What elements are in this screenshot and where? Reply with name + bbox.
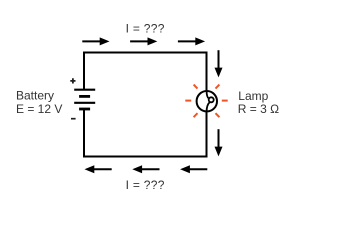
current arrow right lower (down)	[215, 129, 223, 156]
battery plus sign	[70, 78, 75, 83]
wire bottom	[84, 156, 207, 158]
svg-text:Battery: Battery	[16, 89, 54, 103]
lamp filament lead lower	[207, 102, 210, 111]
lamp ray bottom-left	[194, 113, 198, 117]
current arrow bottom 3 (left)	[180, 165, 207, 173]
wire left upper (corner to battery)	[83, 52, 85, 90]
current arrow top 1	[82, 37, 109, 45]
current arrow bottom 2 (left)	[132, 165, 159, 173]
current arrow top 2	[130, 37, 157, 45]
lamp ray left	[185, 100, 191, 102]
svg-text:Lamp: Lamp	[238, 89, 268, 103]
svg-text:R = 3 Ω: R = 3 Ω	[238, 102, 279, 116]
lamp filament lead upper	[207, 91, 209, 99]
battery B1 plate short bottom (-)	[79, 108, 90, 111]
battery B1 plate long 2	[74, 102, 95, 104]
lamp ray top-left	[194, 85, 198, 89]
wire left lower (battery to corner)	[83, 109, 85, 158]
wire right upper (corner to lamp)	[206, 52, 208, 92]
lamp ray bottom-right	[216, 113, 220, 117]
wire top	[84, 52, 207, 54]
current arrow right upper (down)	[215, 50, 223, 77]
battery minus sign	[71, 118, 76, 120]
battery B1 plate short 1	[79, 95, 90, 98]
lamp filament loop	[209, 97, 214, 102]
svg-text:I = ???: I = ???	[126, 21, 165, 35]
lamp ray right	[222, 100, 228, 102]
lamp circle	[197, 91, 217, 111]
current arrow top 3	[178, 37, 205, 45]
svg-text:I = ???: I = ???	[126, 178, 165, 192]
svg-text:E = 12 V: E = 12 V	[16, 102, 62, 116]
wire right lower (lamp to corner)	[206, 111, 208, 157]
current arrow bottom 1 (left)	[85, 165, 112, 173]
battery B1 plate long top (+)	[74, 89, 95, 91]
lamp ray top-right	[216, 85, 220, 89]
